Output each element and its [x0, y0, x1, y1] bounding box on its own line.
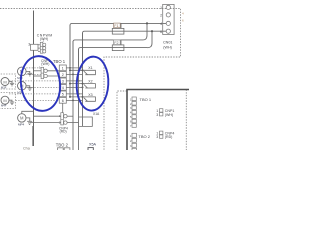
wire W4 bus tap to W2 [79, 31, 153, 66]
svg-text:M: M [3, 79, 6, 84]
dashed sensor rows [9, 68, 59, 101]
wire CNP4 pin2 left [30, 122, 61, 124]
svg-text:1: 1 [62, 66, 64, 70]
motor fan M2F [17, 82, 26, 95]
junction node r4 [82, 86, 84, 88]
outdoor terminal column 1 [132, 97, 136, 127]
wire TBO1 sq6 to CNP4 [62, 103, 64, 113]
svg-text:TBO 2: TBO 2 [138, 134, 150, 139]
wire CNP1 pins to TBO1 [47, 71, 59, 76]
junction node r6 [72, 99, 74, 101]
contact X3 [69, 93, 95, 102]
wire CNP4 pin1 right [67, 115, 73, 117]
svg-text:4: 4 [160, 22, 162, 26]
ground for M1F [26, 71, 32, 76]
fuse F2 [112, 40, 124, 50]
wire MP4 top link [22, 111, 34, 113]
junction node r5 [78, 93, 80, 95]
outdoor terminal column 2 [132, 133, 136, 152]
wire bracket below X3 [79, 117, 93, 126]
connector CNP1 outdoor label [156, 109, 174, 117]
outdoor unit box [127, 90, 189, 151]
annotation blue ellipse left [17, 54, 63, 114]
svg-text:TBO 1: TBO 1 [53, 59, 66, 64]
junction node r3 [78, 80, 80, 82]
terminal block TBO 1 indoor [53, 59, 66, 103]
fuse F1 [112, 23, 124, 34]
contact X1 [69, 66, 95, 75]
svg-text:X2: X2 [88, 80, 92, 84]
motor MP4 [18, 114, 26, 127]
svg-text:2: 2 [62, 73, 64, 77]
terminal block TBO2 indoor cut [58, 148, 70, 152]
wire to CNP1 pin1 [34, 70, 42, 72]
svg-text:X5A: X5A [89, 143, 97, 147]
ground for M4F [9, 100, 14, 104]
svg-text:Cha: Cha [23, 147, 31, 150]
wire: dashed enclosure outdoor unit right [185, 90, 187, 151]
annotation blue ellipse right [75, 56, 109, 112]
svg-text:3: 3 [28, 42, 30, 46]
wire long vertical left [33, 50, 35, 146]
svg-text:M: M [3, 98, 6, 103]
svg-text:X3: X3 [88, 93, 92, 97]
wire W3 bus tap to W1 [73, 23, 147, 66]
dashed box fan unit 2 [0, 93, 16, 109]
svg-text:F1: F1 [114, 24, 118, 28]
svg-text:3: 3 [62, 79, 64, 83]
ground for M3F [9, 82, 14, 86]
junction node on W2 [151, 30, 153, 32]
svg-text:(RD): (RD) [165, 135, 173, 139]
junction node on W1 [146, 22, 148, 24]
junction node r2 [72, 73, 74, 75]
motor M3F [1, 78, 9, 86]
svg-text:4: 4 [62, 86, 64, 90]
svg-text:5: 5 [62, 92, 64, 96]
wire bundle box 3 [31, 44, 39, 50]
svg-text:MP4: MP4 [18, 122, 25, 126]
wires TBO1 right stubs [66, 68, 82, 101]
svg-text:M4F: M4F [1, 104, 7, 108]
contact X2 [69, 80, 95, 89]
svg-text:6: 6 [62, 99, 64, 103]
svg-text:1: 1 [160, 6, 162, 10]
connector CN01 [160, 4, 174, 49]
motor M4F [1, 96, 9, 104]
svg-text:(WH): (WH) [165, 113, 173, 117]
wire vertical into CNPWM bundle [33, 11, 35, 45]
svg-text:3: 3 [156, 113, 158, 117]
connector CNPWM [37, 34, 53, 54]
wire CNP4 pin1 left [34, 115, 61, 117]
wire chassis drop [32, 126, 34, 146]
svg-text:F2: F2 [114, 41, 118, 45]
svg-text:3: 3 [156, 135, 158, 139]
connector CNP4 outdoor label [156, 131, 174, 139]
svg-text:(WH): (WH) [41, 62, 49, 66]
svg-text:TBO 2: TBO 2 [56, 142, 69, 147]
wire to CNP1 pin2 [34, 75, 42, 77]
ground for M2F [26, 86, 32, 91]
junction node r1 [69, 67, 71, 69]
wire: dashed enclosure outdoor unit left [117, 91, 127, 150]
svg-text:TBO 1: TBO 1 [140, 97, 152, 102]
wire CNP4 pin2 right [67, 122, 78, 124]
connector CNP1 [39, 59, 50, 79]
wire stubs to CNPWM [38, 45, 40, 52]
svg-text:6: 6 [160, 30, 162, 34]
wire W2 bus to CN01 pin6 [83, 31, 167, 66]
dashed box fan unit 1 [0, 74, 16, 89]
svg-text:CN01: CN01 [163, 40, 172, 44]
wire W1 bus to CN01 pin4 [70, 23, 166, 66]
motor fan M1F [17, 67, 26, 80]
svg-text:M: M [20, 116, 24, 121]
svg-text:(WH): (WH) [40, 37, 48, 41]
wire: dashed enclosure indoor unit [0, 9, 181, 151]
svg-text:(WH): (WH) [163, 46, 172, 50]
svg-text:X1A: X1A [93, 112, 100, 116]
ground MP4 [26, 118, 32, 125]
bus verticals descending [70, 25, 83, 150]
svg-text:2: 2 [160, 14, 162, 18]
connector CNP4 indoor [59, 113, 68, 134]
svg-text:(RD): (RD) [60, 130, 67, 134]
svg-text:M3F: M3F [1, 86, 7, 90]
svg-text:X1: X1 [88, 66, 92, 70]
